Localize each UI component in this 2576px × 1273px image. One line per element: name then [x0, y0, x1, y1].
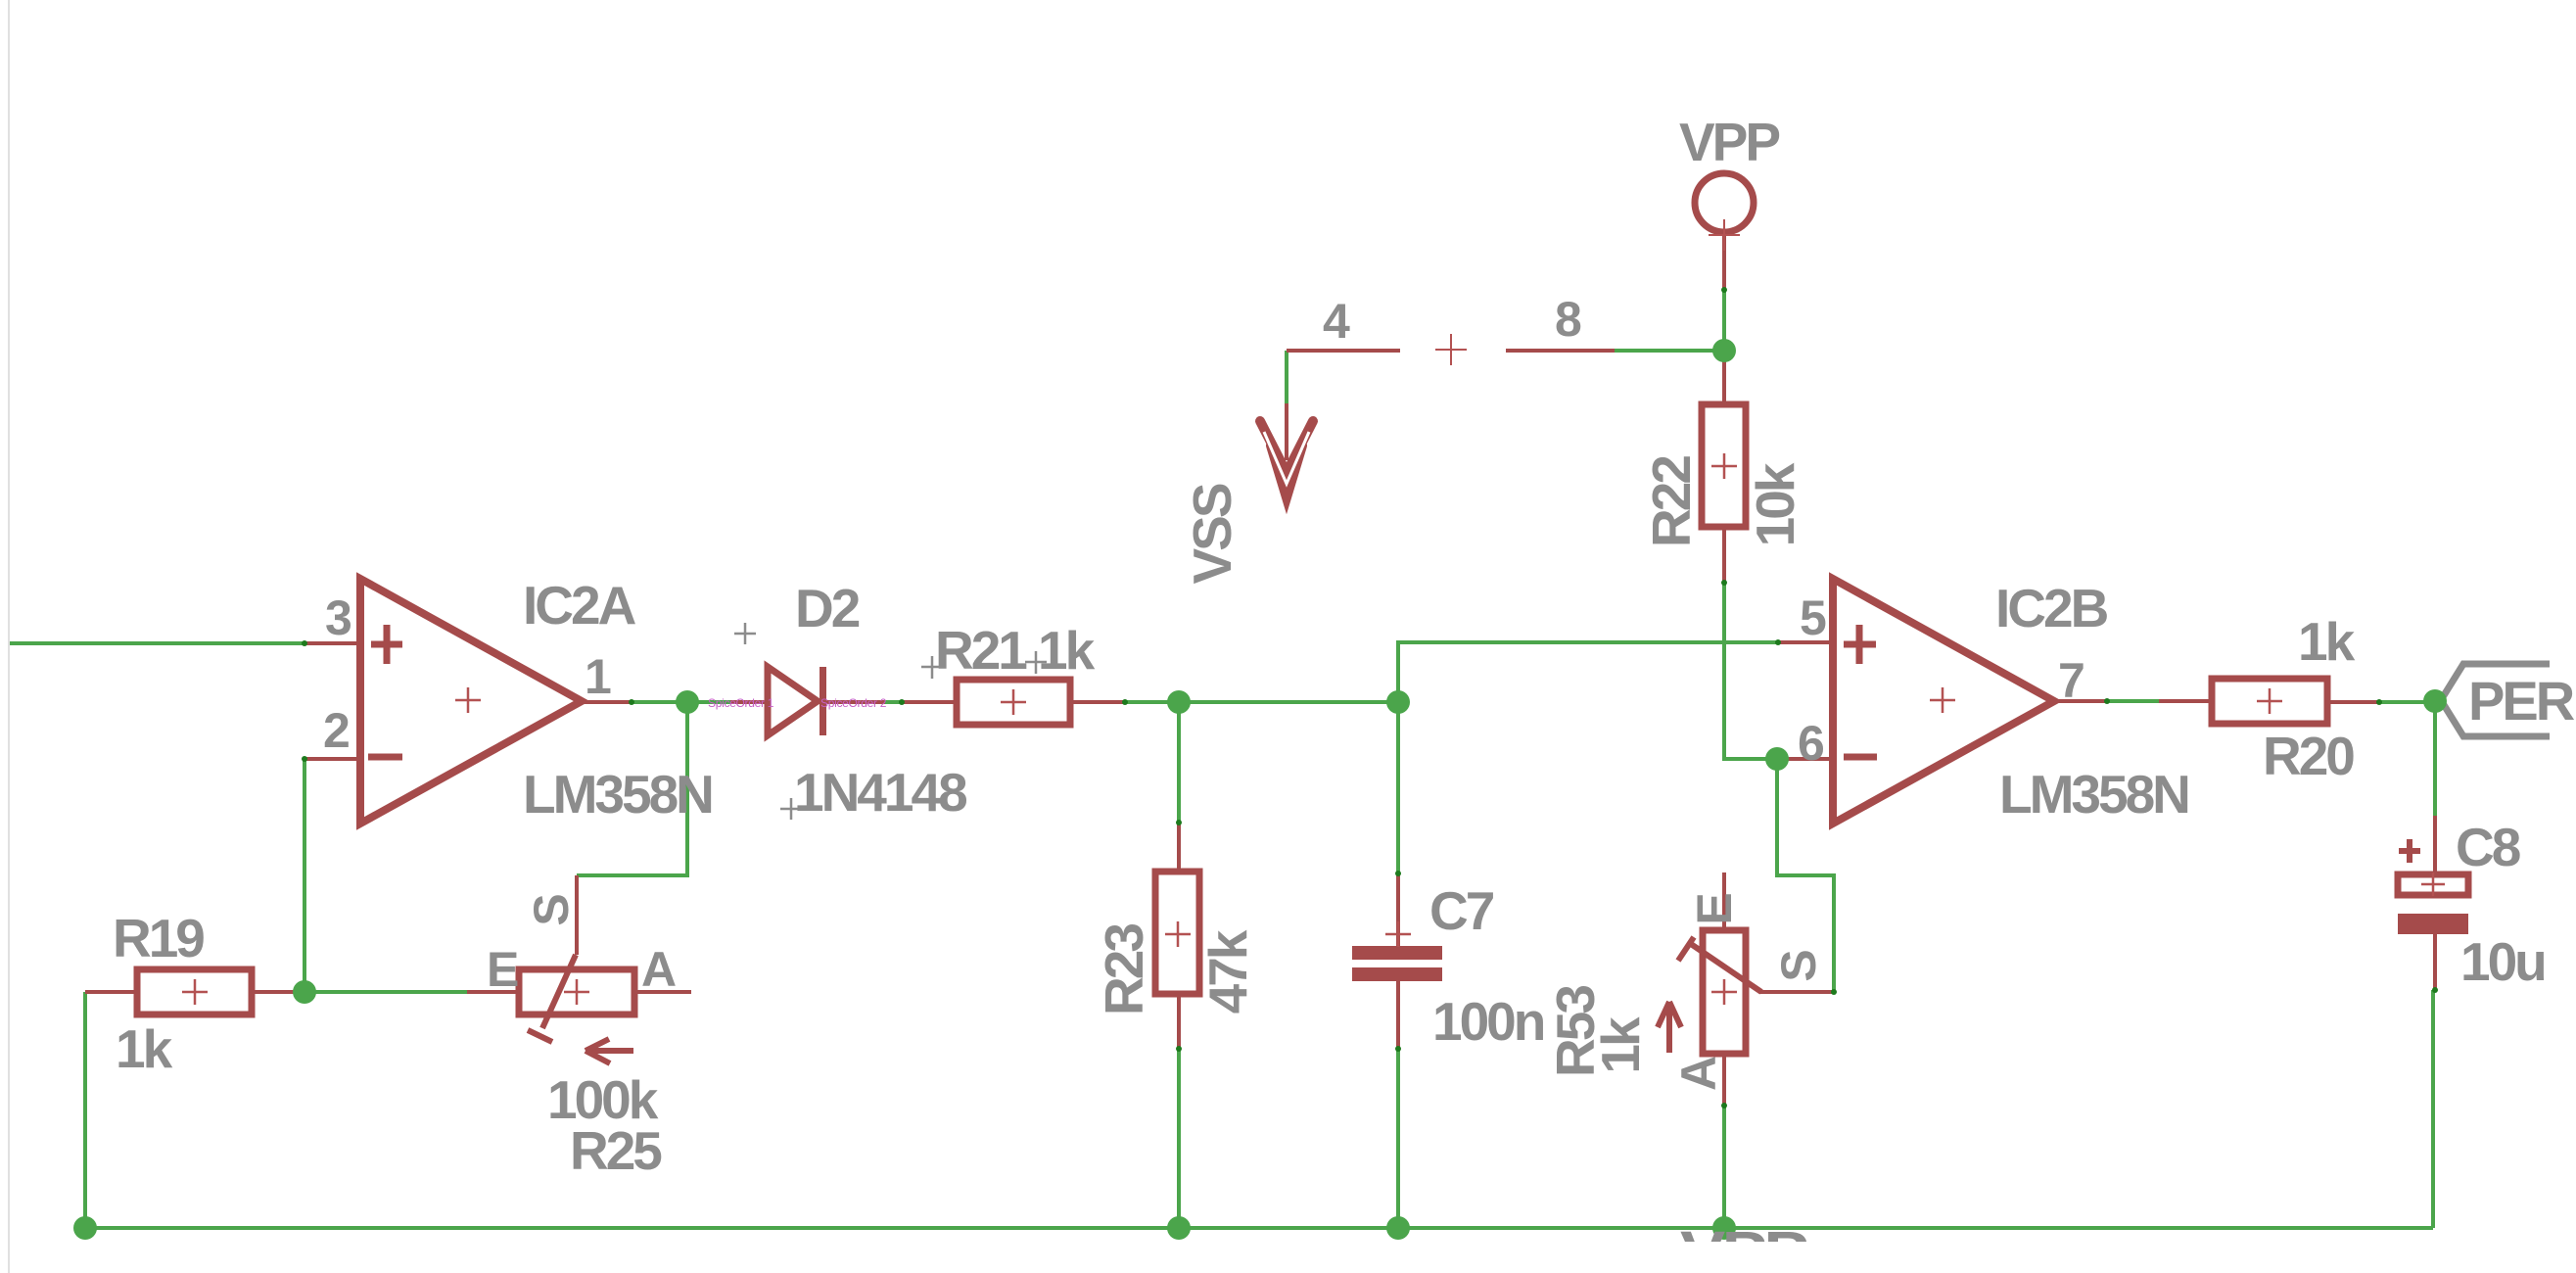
wire riser to IC2B pin5	[1398, 642, 1778, 702]
pin R53 S wiper lead	[1759, 990, 1834, 994]
R23 origin	[1165, 921, 1191, 947]
pin R21 left	[902, 700, 957, 704]
trimmer R53 wiper diagonal	[1678, 937, 1761, 992]
pin IC2B 7 output	[2054, 699, 2107, 703]
supply VSS arrow	[1260, 403, 1313, 497]
op-amp IC2A minus input symbol	[368, 754, 402, 761]
svg-text:E: E	[1687, 892, 1742, 924]
svg-text:LM358N: LM358N	[1999, 764, 2188, 825]
node VPP junction	[1712, 339, 1736, 362]
node IC2B pin6 junction	[1765, 747, 1789, 771]
wire R23 column	[1177, 702, 1181, 823]
R19 origin	[182, 979, 208, 1005]
svg-text:S: S	[1771, 949, 1826, 981]
resistor R22	[1702, 404, 1746, 527]
pin IC2A 2	[304, 757, 360, 761]
svg-text:SpiceOrder 2: SpiceOrder 2	[820, 696, 887, 710]
pin IC2 power 8	[1506, 349, 1615, 353]
svg-text:SpiceOrder 1: SpiceOrder 1	[708, 696, 774, 710]
supply VPP circle	[1695, 173, 1754, 232]
op-amp IC2A	[360, 579, 582, 824]
node rail left	[73, 1216, 97, 1240]
R21 origin	[1001, 689, 1026, 715]
svg-text:5: 5	[1800, 590, 1827, 645]
op-amp IC2B minus input symbol	[1844, 754, 1877, 761]
svg-text:2: 2	[323, 703, 351, 758]
svg-text:R22: R22	[1641, 456, 1702, 547]
pin R25 S wiper lead	[575, 875, 579, 955]
svg-text:D2: D2	[795, 578, 860, 638]
svg-text:1k: 1k	[1590, 1016, 1651, 1074]
svg-text:C7: C7	[1429, 880, 1494, 941]
svg-text:8: 8	[1555, 292, 1582, 347]
wire pin6 node to R53 wiper	[1777, 759, 1834, 992]
pin diode anode	[730, 700, 765, 704]
svg-text:R23: R23	[1094, 924, 1154, 1015]
svg-text:6: 6	[1798, 716, 1825, 771]
svg-text:3: 3	[325, 590, 352, 645]
trimmer R25 adjust arrow	[585, 1039, 633, 1063]
node PER junction	[2423, 689, 2447, 713]
C8 origin	[2421, 872, 2445, 896]
wire IC2A output	[632, 700, 730, 704]
pin R25 E	[467, 990, 519, 994]
IC2A origin	[455, 687, 481, 713]
node C7 junction	[1386, 690, 1410, 714]
trimmer R25 wiper diagonal	[528, 955, 576, 1042]
wire R21 to node	[1125, 700, 1398, 704]
node IC2A output junction	[676, 690, 699, 714]
svg-text:IC2A: IC2A	[523, 575, 636, 636]
svg-text:R19: R19	[113, 908, 204, 968]
wire pin4 drop to VSS	[1285, 351, 1288, 406]
pin IC2A 3	[304, 641, 360, 645]
node R23 junction	[1167, 690, 1191, 714]
resistor R23	[1155, 872, 1199, 994]
pin IC2B 6	[1777, 757, 1833, 761]
wire R22 bottom to IC2B pin6 node	[1724, 583, 1777, 759]
pin IC2B 5	[1778, 640, 1833, 644]
node rail R23	[1167, 1216, 1191, 1240]
svg-text:LM358N: LM358N	[523, 764, 712, 825]
pin R23 top	[1177, 823, 1181, 872]
pin diode cathode	[825, 700, 885, 704]
svg-text:PER: PER	[2468, 670, 2575, 731]
svg-text:IC2B: IC2B	[1995, 578, 2108, 638]
svg-text:1k: 1k	[1038, 620, 1096, 681]
WIRES-GREEN	[10, 290, 2435, 1228]
pin IC2A 1 output	[582, 700, 632, 704]
pin R53 A	[1722, 1053, 1726, 1106]
wire R53 bottom column	[1722, 1106, 1726, 1228]
node rail R53	[1712, 1216, 1736, 1240]
wire IC2A pin2 feedback drop	[303, 759, 306, 992]
wire IC2B output to R20	[2107, 699, 2159, 703]
R53 origin	[1711, 979, 1737, 1005]
wire R20 to PER node	[2379, 700, 2435, 704]
trimmer R53 adjust arrow	[1658, 1002, 1681, 1053]
capacitor C7	[1352, 946, 1442, 981]
trimmer R53 body	[1703, 930, 1746, 1054]
svg-text:1: 1	[585, 649, 612, 704]
diode D2 1N4148	[768, 667, 826, 735]
capacitor C8 electrolytic	[2398, 874, 2468, 895]
label origin cross 1N4148	[780, 798, 802, 820]
svg-text:47k: 47k	[1197, 929, 1258, 1014]
node R19 feedback junction	[293, 980, 316, 1004]
pin VPP supply	[1722, 235, 1726, 290]
wire pin8 to VPP node	[1615, 349, 1724, 353]
capacitor C8 polarity plus	[2399, 839, 2420, 863]
svg-text:4: 4	[1323, 294, 1350, 349]
pin R21 right	[1070, 700, 1125, 704]
wire VPP to R22	[1722, 290, 1726, 351]
wire diode to R21	[885, 700, 902, 704]
svg-text:E: E	[487, 942, 519, 997]
pin R53 E	[1722, 872, 1726, 931]
window border left	[8, 0, 10, 1273]
label origin cross R21	[921, 656, 943, 679]
R25 origin	[564, 979, 589, 1005]
pin R23 bottom	[1177, 994, 1181, 1049]
svg-text:7: 7	[2058, 653, 2085, 708]
svg-text:A: A	[641, 942, 677, 997]
label origin cross D2	[734, 623, 756, 644]
pin R22 top	[1722, 351, 1726, 404]
svg-text:R25: R25	[570, 1120, 662, 1181]
wire output drop to R25 wiper	[577, 702, 687, 875]
svg-text:A: A	[1671, 1056, 1726, 1091]
VPP origin	[1709, 219, 1740, 251]
svg-text:VSS: VSS	[1182, 484, 1242, 584]
svg-text:C8: C8	[2456, 817, 2520, 877]
pin C7 bottom	[1396, 981, 1400, 1049]
svg-text:R21: R21	[935, 620, 1027, 681]
pin R19 left	[85, 990, 137, 994]
canvas clip bottom	[1567, 1242, 1958, 1273]
wire R19 left column	[83, 992, 87, 1228]
op-amp IC2B plus input symbol	[1844, 625, 1877, 757]
op-amp IC2B	[1833, 579, 2054, 824]
svg-text:100n: 100n	[1432, 991, 1544, 1052]
svg-text:1N4148: 1N4148	[794, 762, 966, 823]
svg-text:R20: R20	[2263, 726, 2354, 786]
svg-text:VPP: VPP	[1679, 112, 1779, 172]
pin C8 top	[2433, 816, 2437, 874]
trimmer R25 body	[519, 969, 634, 1014]
svg-text:10u: 10u	[2460, 931, 2545, 992]
origin crosses thin	[182, 453, 2445, 1005]
wire node junction R19/R25	[304, 990, 467, 994]
pin C7 top	[1396, 873, 1400, 946]
resistor R20	[2212, 679, 2327, 724]
pin R19 right	[252, 990, 304, 994]
resistor R21	[957, 680, 1070, 725]
wire C8 bottom column	[2431, 990, 2435, 1228]
resistor R19	[137, 969, 252, 1014]
label origin cross 1k	[1025, 651, 1047, 674]
node rail C7	[1386, 1216, 1410, 1240]
IC2B origin	[1930, 687, 1955, 713]
R20 origin	[2257, 688, 2282, 714]
svg-text:1k: 1k	[2298, 611, 2356, 672]
pin R20 right	[2327, 700, 2379, 704]
svg-text:10k: 10k	[1745, 462, 1805, 546]
net tag PER	[2441, 664, 2550, 736]
svg-text:S: S	[524, 893, 579, 925]
C7 origin	[1385, 921, 1411, 947]
PIN-LEADS dark red	[85, 235, 2435, 1106]
op-amp IC2A plus input symbol	[368, 625, 402, 757]
svg-text:1k: 1k	[116, 1018, 173, 1079]
IC2 power origin	[1435, 334, 1467, 365]
wire PER node down to C8	[2433, 701, 2437, 816]
wire bottom rail	[85, 1226, 2433, 1230]
pin C8 bottom	[2433, 934, 2437, 990]
pin R22 bottom	[1722, 527, 1726, 583]
wire C7 column	[1396, 702, 1400, 873]
R22 origin	[1711, 453, 1737, 479]
pin R20 left	[2159, 699, 2212, 703]
wire input to IC2A pin3	[10, 641, 304, 645]
pin R25 A	[634, 990, 691, 994]
wire endpoint dots	[302, 287, 2438, 1108]
pin IC2 power 4	[1287, 349, 1400, 353]
